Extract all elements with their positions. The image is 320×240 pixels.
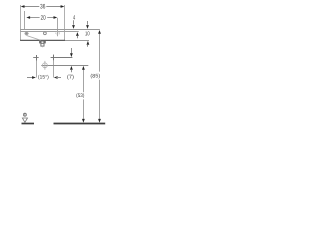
dimension 85 up arrow bbox=[98, 30, 101, 34]
dimension 7 up arrow bbox=[70, 66, 73, 72]
wire bottom line C extension bbox=[65, 40, 89, 42]
wire rim line B bbox=[20, 31, 79, 33]
wire extension x57.8 bbox=[57, 18, 59, 36]
label (85) bbox=[91, 74, 100, 79]
dimension 15deg left stem and arrow bbox=[27, 76, 36, 79]
fixing cross left vertical / extension to 15deg bbox=[36, 55, 38, 78]
dimension 10 down arrow bbox=[86, 21, 89, 29]
label 10 bbox=[85, 31, 89, 35]
outlet symbol circle cross bbox=[43, 61, 48, 70]
trap outlet tick bbox=[41, 46, 43, 47]
drain circle bbox=[44, 32, 47, 35]
tap hole cross left bbox=[25, 32, 29, 36]
dimension 15deg right arrow and stem bbox=[54, 76, 61, 79]
trap body bbox=[41, 43, 44, 46]
wire bottom line C basin bbox=[20, 39, 65, 41]
label (7) bbox=[67, 75, 73, 80]
wire left extension line x20.7 bbox=[20, 5, 22, 41]
dimension 4 down arrow bbox=[72, 20, 75, 29]
dimension 85 vertical line bbox=[99, 33, 101, 119]
dimension 36 line bbox=[23, 6, 63, 8]
floor line left segment bbox=[22, 123, 35, 125]
wire top line A bbox=[20, 29, 100, 31]
fixing cross left bbox=[33, 57, 39, 59]
label 36 bbox=[40, 4, 45, 9]
dimension 36 arrowheads bbox=[21, 5, 65, 8]
dimension 7 down arrow bbox=[70, 48, 73, 57]
fixing cross right vertical / extension to 15deg bbox=[53, 55, 55, 78]
floor line right segment bbox=[54, 123, 106, 125]
trap flange bbox=[39, 41, 46, 44]
label (15deg) bbox=[38, 75, 48, 80]
dimension 20 arrowheads bbox=[26, 16, 57, 19]
fixing cross right horizontal line1 bbox=[51, 57, 73, 59]
datum symbol triangle bbox=[22, 118, 27, 122]
dimension 85 down arrow bbox=[98, 119, 101, 123]
label (53) bbox=[76, 93, 84, 98]
dimension 4 label bbox=[73, 15, 75, 19]
diagonal overflow line bbox=[27, 36, 41, 41]
dimension 20 line bbox=[29, 17, 55, 19]
wire right extension line x64.6 bbox=[64, 5, 66, 41]
wire extension x24 bbox=[24, 11, 26, 30]
datum symbol circle bbox=[23, 113, 26, 116]
dimension 53 down arrow bbox=[82, 119, 85, 123]
dimension 53 vertical line bbox=[83, 70, 85, 120]
dimension 53 up arrow bbox=[82, 66, 85, 70]
label 20 bbox=[41, 15, 46, 20]
tap hole circle right dashed bbox=[56, 31, 59, 34]
dimension 10 up arrow bbox=[87, 41, 90, 47]
outlet line2 bbox=[41, 65, 88, 67]
dimension 4 up arrow bbox=[76, 32, 79, 38]
